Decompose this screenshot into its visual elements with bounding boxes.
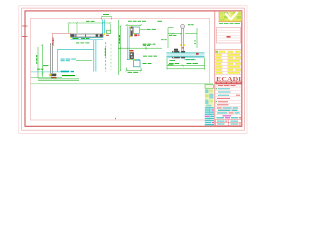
detail1 green note row upper: [81, 37, 90, 40]
detail1 right end fitting: [107, 30, 111, 33]
detail2 lower red parts top: [129, 50, 133, 51]
detail1 green note XX on transom: [73, 37, 79, 40]
detail1 bottom green notes: [37, 65, 49, 69]
detail1 transom profile bar: [71, 34, 104, 37]
detail1 corner post (red): [52, 38, 54, 46]
detail1 green leader to note: [76, 60, 92, 62]
detail2 upper red parts: [134, 34, 139, 36]
detail2 upper yellow dots: [130, 27, 135, 37]
detail1 glass pane above transom (double cyan): [103, 20, 105, 35]
sheet frame: faint outer trim line: [19, 6, 247, 134]
detail1 top dimension line: [68, 22, 112, 33]
small red text row under band: [218, 84, 236, 87]
caption tiny red text: [51, 77, 57, 78]
title block logo (yellow/green with white V): [219, 11, 242, 22]
detail2 lower yellow dots: [129, 51, 135, 60]
detail2 upper dimension: [126, 24, 142, 26]
red line above yellow table: [215, 49, 242, 51]
stray green fleck: [115, 118, 116, 119]
detail3 top dimension: [168, 28, 197, 48]
detail2 glass verticals (cyan): [127, 27, 129, 60]
green small text row under logo: [219, 22, 240, 25]
detail3 red fitting right: [196, 53, 199, 55]
sheet frame: strong red border: [25, 11, 242, 126]
drawing title cyan rows: [215, 107, 242, 114]
detail1 small dim at glass head: [101, 16, 112, 19]
detail3 centre clamp: [181, 51, 185, 53]
detail2 upper mullion dark bar: [130, 27, 132, 37]
detail1 yellow dots on mullion: [53, 45, 54, 75]
detail1 yellow fastener dots: [70, 33, 105, 38]
detail3 clamp yellow dots: [173, 51, 180, 58]
detail1 glass below transom (double cyan): [94, 40, 96, 72]
strip lower cyan rows: [205, 107, 215, 126]
detail1 vertical green text along centerline: [105, 48, 106, 56]
detail3 spider bolt circle: [181, 24, 185, 28]
caption under detail1: cyan name text: [61, 71, 75, 73]
detail2 lower white box: [134, 60, 140, 67]
detail3 cyan note under band: [186, 59, 195, 60]
detail1 bottom green line: [31, 76, 62, 78]
bottom 2x2 table: [215, 120, 241, 126]
detail3 bottom dimension lines: [167, 58, 205, 70]
fold mark ticks on left border: [22, 25, 28, 27]
detail2 upper white box: [133, 27, 139, 33]
magenta small row: [223, 115, 232, 116]
detail3 left clamp assembly: [172, 51, 180, 53]
title block upper box with faint rows: [216, 28, 240, 43]
detail1 left dimension verticals: [38, 44, 43, 78]
strip green header box: [205, 85, 213, 89]
detail3 stem fixings: [180, 44, 185, 45]
detail1 mullion bottom footer: [50, 74, 57, 77]
detail3 bolt stem: [182, 29, 184, 53]
detail2 left dimension vertical: [120, 25, 122, 71]
long pale green rule across sheet: [30, 83, 213, 85]
strip upper pale block: [205, 89, 214, 107]
detail2 lower mullion dark box: [130, 52, 134, 59]
detail1 slab edge (pink outline): [52, 33, 71, 45]
sheet frame: inner drawing-area line: [31, 18, 210, 120]
detail1 inner skin cyan L: [58, 49, 94, 72]
detail1 left mullion (dark double line): [51, 43, 53, 73]
detail2 note text top: [128, 20, 162, 23]
detail3 glass band: [167, 53, 205, 57]
title block left border: [214, 11, 216, 126]
detail1 green note near corner: [76, 42, 89, 45]
ECADI red band: [215, 82, 241, 85]
detail1 green dashed centerlines: [106, 20, 119, 75]
detail1 interior floor cyan line: [31, 71, 60, 73]
detail2 floor axis line: [118, 47, 162, 49]
detail1 top dimension text: [86, 20, 95, 23]
detail2 right note rows: [143, 44, 158, 64]
caption under detail1: green sub text: [62, 75, 75, 76]
detail2 bottom dimension: [126, 68, 143, 72]
caption underline double green: [38, 78, 79, 80]
yellow table rows: [215, 51, 242, 74]
detail1 transom underside cyan lines: [71, 38, 104, 40]
mixed cyan magenta row: [217, 117, 242, 118]
info rows: [215, 88, 242, 106]
detail2 leader to right note: [140, 29, 146, 31]
sheet frame: light pink line: [22, 8, 245, 130]
detail2 lower cyan underline: [127, 59, 140, 61]
detail1 left dim text (vertical): [36, 55, 37, 64]
detail1 cyan note text: [61, 59, 76, 62]
